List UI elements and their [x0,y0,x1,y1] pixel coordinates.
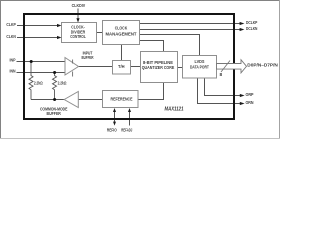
wire CLKDIV drop [77,9,79,20]
wire divider to clock management [97,32,103,34]
svg-text:REFERENCE: REFERENCE [111,97,133,102]
bus slash [221,61,230,73]
wire clock management to quantizer [140,41,164,52]
svg-text:BUFFER: BUFFER [82,55,94,60]
box clock management [103,21,140,45]
svg-text:D0P/N–D7P/N: D0P/N–D7P/N [247,63,278,69]
svg-text:LVDS: LVDS [195,59,205,64]
tick marks on input buffer [72,60,74,77]
op-amp input buffer [65,58,79,76]
box label LVDS data port [190,59,209,70]
box LVDS data port [183,56,217,79]
arrowhead REFADJ up [128,108,131,112]
svg-text:DCLKP: DCLKP [246,20,258,26]
arrowhead DCLKP [240,22,245,25]
svg-text:MANAGEMENT: MANAGEMENT [106,32,137,38]
wire LVDS to ORN [198,78,241,104]
label input buffer [82,51,94,61]
arrowhead CLKDIV down [76,18,79,22]
arrowhead DCLKN [240,28,245,31]
svg-text:MAX1121: MAX1121 [165,107,184,113]
wire input buffer to T/H [78,66,112,68]
svg-text:2.2kΩ: 2.2kΩ [58,81,67,87]
node dot on common-mode net [53,98,56,101]
svg-text:DATA PORT: DATA PORT [190,65,209,70]
wire DCLKP [140,23,241,25]
svg-text:INN: INN [10,69,16,75]
box label clock management [106,26,137,38]
wire CLKP [17,25,58,27]
resistor R2 2.2k [53,73,57,100]
wire DCLKN [140,29,241,31]
svg-text:8: 8 [219,72,222,78]
arrowhead ORP [240,94,245,97]
svg-text:CLOCK: CLOCK [115,26,128,32]
box clock-divider control [62,23,97,43]
wire T/H to quantizer [131,66,141,68]
svg-text:T/H: T/H [118,64,125,70]
node dot on INP [30,60,33,63]
resistor R1 2.2k [29,62,57,100]
arrowhead ORN [240,102,245,105]
chip border MAX1121 [24,14,234,119]
arrowhead CLKP [57,24,62,27]
svg-text:REFADJ: REFADJ [121,128,132,134]
wire common-mode net [31,99,64,101]
svg-text:CONTROL: CONTROL [70,34,86,39]
wire CLKN [17,37,58,39]
box reference [103,91,139,108]
box 8-bit pipeline quantizer core [141,52,178,83]
wire REFIO vertical [114,111,116,124]
svg-text:CLKP: CLKP [6,22,16,28]
label common-mode buffer [40,106,68,116]
svg-text:QUANTIZER CORE: QUANTIZER CORE [142,65,175,70]
svg-text:BUFFER: BUFFER [47,111,62,116]
wire common-mode buffer input from reference [78,99,102,101]
node dot on INN [53,71,56,74]
wire REFADJ vertical [129,111,131,126]
svg-text:ORN: ORN [246,100,254,106]
box label clock-divider control [70,25,86,40]
svg-text:REFIO: REFIO [107,128,117,134]
svg-text:CLKN: CLKN [6,34,16,40]
wire clock management to T/H [121,45,123,61]
op-amp common-mode buffer [64,92,78,108]
svg-text:INP: INP [10,57,17,63]
box label 8-bit pipeline quantizer core [142,60,175,70]
svg-text:CLKDIV: CLKDIV [72,3,86,9]
svg-text:ORP: ORP [246,92,255,98]
wire INN [17,72,66,74]
wire quantizer to LVDS data port [178,67,183,69]
wire INP [17,61,66,63]
svg-text:DCLKN: DCLKN [246,26,258,32]
arrowhead CLKN [57,36,62,39]
wire LVDS to ORP [205,78,241,96]
arrowhead REFIO down [113,122,116,126]
arrowhead REFIO up [113,108,116,112]
wire clock management to LVDS data port [140,35,200,56]
image frame [0,0,280,139]
box T/H [113,61,131,75]
wire reference to quantizer [138,83,164,100]
svg-text:2.2kΩ: 2.2kΩ [34,81,43,87]
bus arrow D0P/N-D7P/N [217,60,247,73]
